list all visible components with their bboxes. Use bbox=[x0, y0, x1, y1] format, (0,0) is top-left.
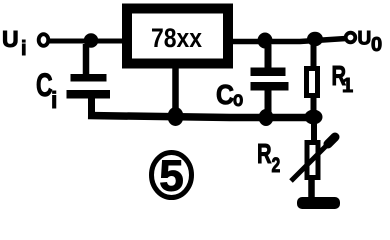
label R1 bbox=[332, 61, 354, 97]
wire node A to regulator input bbox=[91, 39, 124, 44]
node D junction (regulator ground on rail) bbox=[168, 107, 184, 126]
node A junction (input / Ci) bbox=[84, 33, 99, 48]
svg-text:i: i bbox=[21, 38, 27, 60]
regulator U1 box bbox=[127, 9, 228, 64]
label R2 bbox=[257, 139, 280, 177]
ground rail wire bbox=[88, 116, 317, 118]
label Co bbox=[216, 79, 243, 112]
resistor R1 bbox=[307, 44, 318, 114]
label Ui bbox=[2, 26, 27, 60]
wire input terminal to node A bbox=[49, 39, 92, 44]
capacitor Co bbox=[251, 45, 289, 113]
ground bbox=[297, 197, 340, 209]
potentiometer R2 body bbox=[307, 143, 318, 178]
svg-text:1: 1 bbox=[342, 75, 353, 97]
capacitor Ci bbox=[67, 44, 111, 117]
wire node F to potentiometer R2 bbox=[311, 117, 317, 142]
output terminal bbox=[346, 33, 356, 43]
node C junction (R1 top) bbox=[307, 32, 323, 46]
figure number 5 bbox=[152, 152, 192, 201]
svg-text:U: U bbox=[2, 26, 19, 52]
svg-text:C: C bbox=[216, 79, 234, 111]
svg-text:i: i bbox=[51, 87, 57, 113]
label Ci bbox=[36, 67, 57, 113]
svg-text:2: 2 bbox=[272, 153, 281, 177]
input terminal bbox=[39, 34, 49, 46]
svg-text:0: 0 bbox=[371, 34, 382, 56]
svg-text:78xx: 78xx bbox=[151, 23, 202, 53]
svg-text:R: R bbox=[257, 139, 272, 170]
svg-text:U: U bbox=[358, 29, 372, 50]
svg-text:5: 5 bbox=[159, 152, 183, 201]
regulator ground pin wire bbox=[172, 66, 179, 114]
wire R2 to ground bbox=[308, 178, 315, 200]
node E junction (Co bottom on rail) bbox=[259, 109, 274, 126]
label U0 bbox=[358, 29, 383, 57]
wire regulator output to output terminal bbox=[231, 39, 346, 42]
potentiometer R2 arrow bbox=[291, 137, 335, 181]
svg-text:o: o bbox=[233, 88, 243, 111]
node F junction (R1 bottom / R2 top on rail) bbox=[305, 110, 323, 125]
node B junction (Co top) bbox=[258, 33, 273, 49]
